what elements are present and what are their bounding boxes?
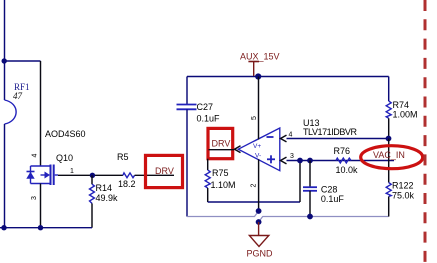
svg-text:0.1uF: 0.1uF: [321, 194, 345, 204]
node pin3 junction b: [307, 158, 313, 164]
wire top rail AUX_15V: [187, 76, 389, 78]
value 1.10M: [211, 180, 236, 190]
net label DRV highlight box: [146, 155, 183, 187]
net label DRV highlight box 2: [208, 128, 233, 158]
svg-text:R76: R76: [334, 146, 351, 156]
label AOD4S60: [45, 129, 86, 139]
wire left border lower: [186, 109, 188, 216]
wire R14 top lead: [91, 175, 93, 184]
svg-text:2: 2: [251, 183, 258, 187]
resistor R14: [90, 184, 95, 203]
svg-text:VAC_IN: VAC_IN: [373, 150, 405, 160]
svg-text:1.10M: 1.10M: [211, 180, 236, 190]
label R74: [393, 100, 410, 110]
svg-text:TLV171IDBVR: TLV171IDBVR: [303, 127, 358, 137]
node feedback junction: [386, 136, 392, 142]
svg-text:DRV: DRV: [212, 139, 231, 149]
svg-text:R14: R14: [96, 183, 113, 193]
value 18.2: [118, 179, 136, 189]
wire through VAC_IN: [388, 139, 390, 183]
resistor R122: [386, 183, 391, 197]
transistor Q10: [26, 165, 58, 186]
svg-text:R75: R75: [212, 168, 229, 178]
resistor R76: [336, 158, 351, 163]
svg-text:4: 4: [289, 132, 293, 139]
svg-text:49.9k: 49.9k: [96, 193, 119, 203]
label R122: [392, 181, 414, 191]
pin 3 wire IN+: [287, 160, 395, 162]
boundary dashed line: [424, 0, 427, 263]
wire Q10 source vertical: [40, 184, 42, 228]
wire R5 to DRV: [135, 174, 174, 176]
net name AUX_15V: [240, 52, 280, 62]
value 49.9k: [96, 193, 119, 203]
svg-text:3: 3: [290, 153, 294, 160]
wire R14 bottom lead: [91, 203, 93, 227]
svg-text:47: 47: [13, 91, 23, 101]
wire R74 bottom lead: [388, 118, 390, 138]
value 0.1uF C27: [197, 114, 221, 124]
svg-text:3: 3: [31, 196, 38, 200]
pin arrow output: [235, 146, 241, 153]
label R14: [96, 183, 113, 193]
label R5: [117, 152, 129, 162]
capacitor C28: [303, 187, 317, 191]
label C28: [321, 185, 338, 195]
svg-text:C27: C27: [197, 102, 214, 112]
value 75.0k: [392, 191, 415, 201]
svg-text:R122: R122: [392, 181, 414, 191]
svg-text:C28: C28: [321, 185, 338, 195]
wire Q10 gate to R5: [58, 174, 123, 176]
wire R75 top lead: [207, 159, 209, 170]
pin 4 wire IN- to feedback: [287, 138, 389, 140]
wire R75 bottom lead: [207, 188, 209, 202]
svg-text:V+: V+: [253, 143, 261, 150]
resistor R74: [386, 101, 391, 118]
power symbol AUX_15V: [248, 62, 259, 77]
svg-text:V-: V-: [255, 153, 261, 160]
net name DRV: [155, 166, 174, 176]
value TLV171IDBVR: [303, 127, 358, 137]
svg-text:1: 1: [70, 168, 74, 175]
value 0.1uF C28: [321, 194, 345, 204]
op-amp U13: [238, 128, 279, 171]
wire top horizontal to Q10 drain: [5, 60, 41, 62]
svg-text:R5: R5: [117, 152, 129, 162]
label Q10: [56, 153, 73, 163]
svg-text:5: 5: [251, 116, 258, 120]
node input junction: [1, 58, 6, 63]
wire left border upper: [186, 77, 188, 105]
wire bottom rail right segment: [259, 217, 389, 223]
svg-text:0.1uF: 0.1uF: [197, 114, 221, 124]
label R75: [212, 168, 229, 178]
resistor R75: [205, 170, 210, 188]
node rail left junction: [1, 225, 6, 230]
wire from pin3 node down: [299, 161, 301, 203]
value 1.00M: [393, 110, 418, 120]
value 10.0k: [336, 165, 359, 175]
wire inner horizontal: [208, 201, 300, 203]
pin 2 wire V-: [258, 159, 260, 211]
label U13: [303, 118, 320, 128]
wire left vertical input: [4, 0, 6, 100]
wire bottom rail left section: [0, 227, 92, 229]
wire right border top R74 lead: [388, 77, 390, 102]
pin 5 wire V+: [258, 77, 260, 140]
net VAC_IN highlight ellipse: [361, 146, 423, 169]
node PGND jog upper: [256, 208, 262, 214]
capacitor C27: [177, 105, 197, 110]
net name PGND: [247, 249, 274, 259]
value 47: [13, 91, 23, 101]
node pin3 junction a: [297, 158, 303, 164]
node top rail junction: [255, 73, 261, 79]
wire op-amp output to DRV: [209, 149, 235, 151]
node bottom rail C28: [307, 214, 313, 220]
wire C28 bottom lead: [309, 191, 311, 217]
pin 3 label Q10 source: [31, 196, 38, 200]
fuse RF1: [5, 100, 17, 124]
node gate junction: [90, 173, 95, 178]
pin 2 label: [251, 183, 258, 187]
pin arrow IN+: [281, 157, 287, 164]
wire C28 top lead: [309, 161, 311, 188]
svg-text:18.2: 18.2: [118, 179, 136, 189]
pin 4 label Q10 drain: [32, 153, 39, 157]
wire Q10 drain vertical: [40, 61, 42, 166]
wire R122 bottom lead: [388, 197, 390, 217]
svg-text:75.0k: 75.0k: [392, 191, 415, 201]
pin 4 label opamp: [289, 132, 293, 139]
svg-text:10.0k: 10.0k: [336, 165, 359, 175]
svg-text:R74: R74: [393, 100, 410, 110]
net name DRV 2: [212, 139, 231, 149]
svg-text:1.00M: 1.00M: [393, 110, 418, 120]
pin 3 label opamp: [290, 153, 294, 160]
label RF1: [14, 82, 30, 92]
svg-text:DRV: DRV: [155, 166, 174, 176]
svg-text:PGND: PGND: [247, 249, 274, 259]
wire bottom rail left segment: [187, 211, 259, 217]
ground symbol PGND: [249, 222, 268, 247]
pin 5 label: [251, 116, 258, 120]
svg-text:Q10: Q10: [56, 153, 73, 163]
label R76: [334, 146, 351, 156]
svg-text:AUX_15V: AUX_15V: [240, 52, 280, 62]
pin 1 label Q10 gate: [70, 168, 74, 175]
svg-text:4: 4: [32, 153, 39, 157]
pin arrow IN-: [281, 135, 287, 142]
wire left vertical below fuse: [4, 124, 6, 228]
label C27: [197, 102, 214, 112]
resistor R5: [123, 173, 135, 178]
node rail Q10 junction: [38, 225, 43, 230]
svg-text:AOD4S60: AOD4S60: [45, 129, 86, 139]
net name VAC_IN: [373, 150, 405, 160]
node PGND jog lower: [256, 219, 262, 225]
